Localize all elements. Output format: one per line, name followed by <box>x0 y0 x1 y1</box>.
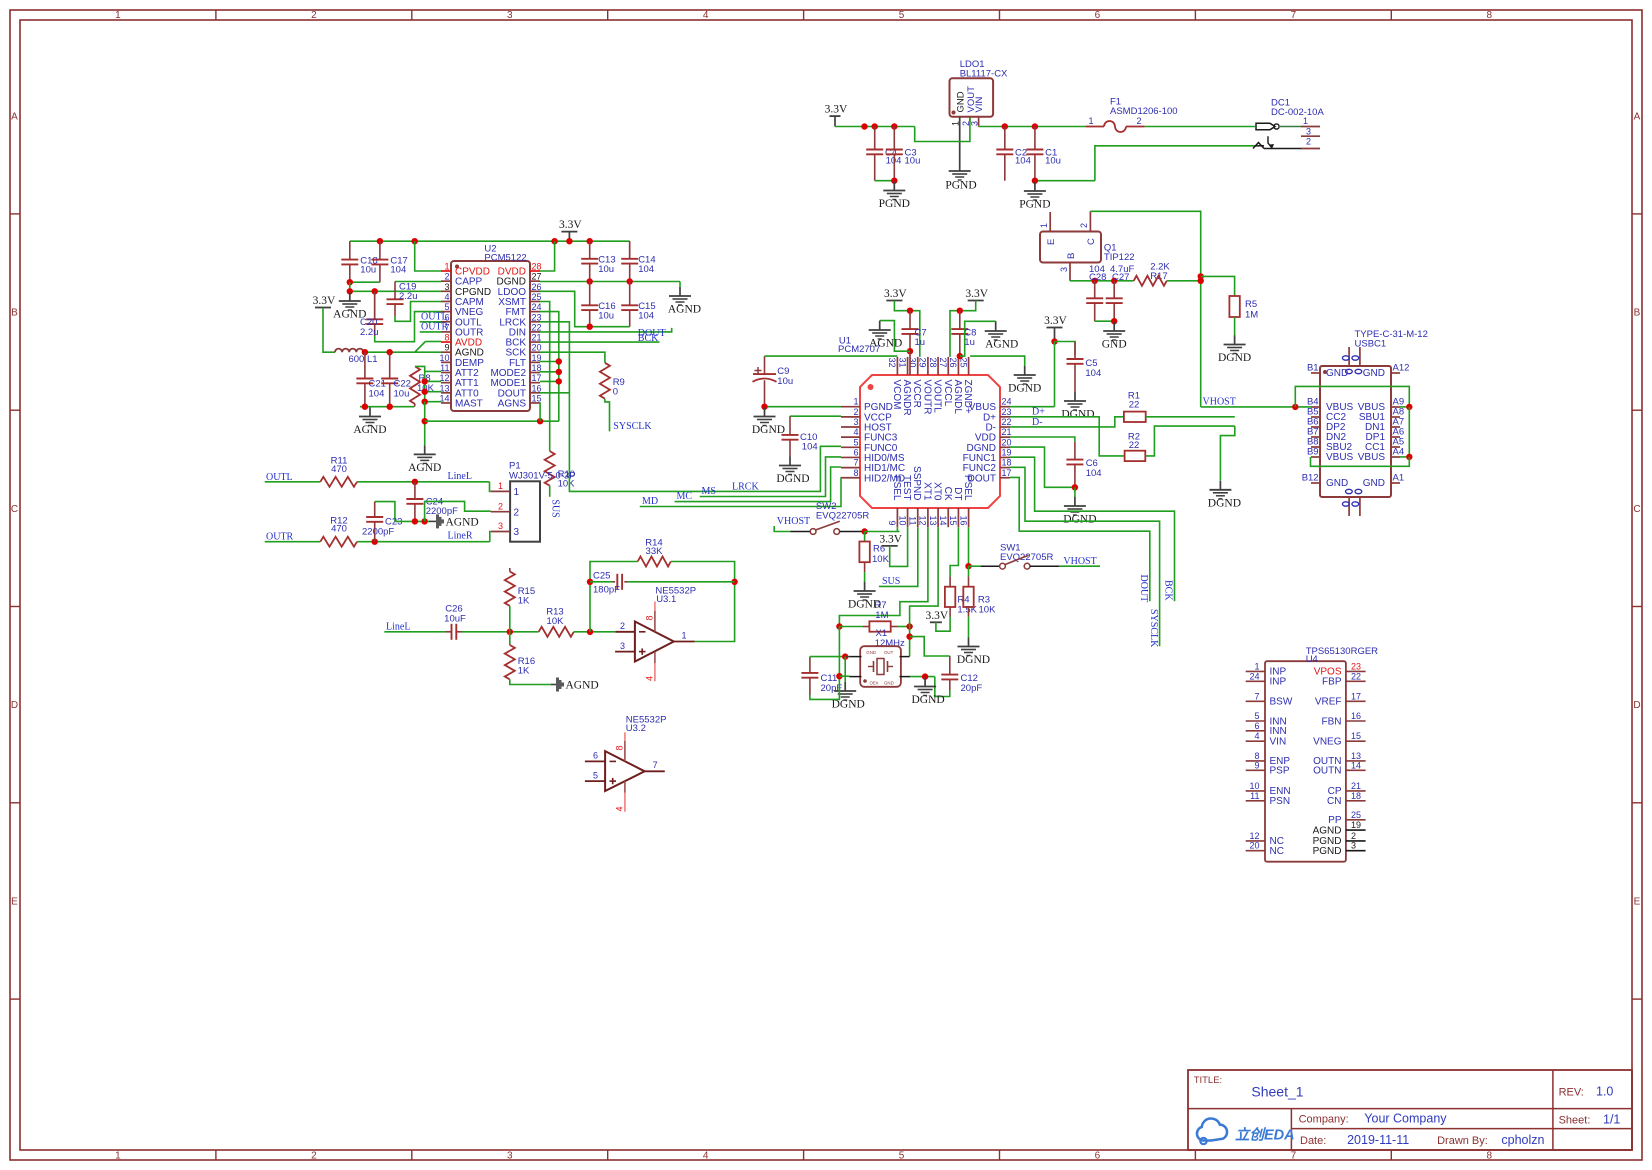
node C23 bottom <box>372 539 378 545</box>
title block <box>1188 1070 1632 1150</box>
svg-text:SYSCLK: SYSCLK <box>613 421 652 432</box>
U2 pin 9 AGND stub <box>441 351 451 353</box>
svg-text:Drawn By:: Drawn By: <box>1437 1135 1488 1147</box>
U2 pin 20 SCK stub <box>530 351 540 353</box>
svg-text:MC: MC <box>677 491 693 502</box>
node C25 right <box>731 579 737 585</box>
svg-text:10K: 10K <box>872 554 890 565</box>
svg-text:ASMD1206-100: ASMD1206-100 <box>1110 106 1178 117</box>
wire to R16 <box>509 632 511 645</box>
wire pin24 VBUS <box>1010 406 1055 408</box>
wire Q1 base row <box>1070 280 1134 282</box>
svg-text:20: 20 <box>1249 841 1259 851</box>
wire 3.3V to U2 pin1 CPVDD <box>415 241 441 271</box>
wire MAST bus down to AGND <box>424 402 426 446</box>
U1 pin 19 FUNC1 stub <box>1000 456 1010 458</box>
USBC1 pin A7 stub <box>1391 426 1400 428</box>
node 3.3V/C5 <box>1051 338 1057 344</box>
ground AGND arrow (R16) <box>556 678 564 692</box>
SW1 lever <box>1005 555 1029 564</box>
svg-text:VBUS: VBUS <box>1358 452 1386 463</box>
svg-text:1: 1 <box>444 262 449 272</box>
U2 pin 17 MODE1 stub <box>530 382 540 384</box>
ground DGND (C11/X1) <box>844 682 846 691</box>
svg-text:GND: GND <box>1363 368 1385 379</box>
svg-text:3.3V: 3.3V <box>884 288 907 300</box>
svg-text:FSEL: FSEL <box>891 475 902 500</box>
node MAST <box>422 399 428 405</box>
svg-text:DGND: DGND <box>832 699 865 711</box>
LDO1 pin2 VOUT stub <box>969 117 971 122</box>
wire R10 bottom <box>549 486 551 497</box>
svg-text:BL1117-CX: BL1117-CX <box>960 68 1008 79</box>
capacitor C12 body <box>949 656 951 675</box>
ground DGND (R5) <box>1234 336 1236 345</box>
U4 pin 24 INP stub <box>1246 680 1265 682</box>
svg-text:12: 12 <box>918 515 928 525</box>
capacitor C20 body <box>374 291 376 319</box>
svg-text:26: 26 <box>948 358 958 368</box>
svg-text:PSEL: PSEL <box>962 475 973 501</box>
node A9 <box>1406 404 1412 410</box>
U2 pin 14 MAST stub <box>441 402 451 404</box>
wire VHOST to USB B4 <box>1201 406 1311 408</box>
capacitor C1 <box>1034 127 1036 150</box>
node C22 bottom <box>387 404 393 410</box>
wire pin12 ATT1 <box>425 380 441 382</box>
node pin1 feed <box>412 238 418 244</box>
crystal X1 body <box>860 646 901 687</box>
power flag 3.3V (pin10 TEST) <box>882 545 898 547</box>
svg-text:DGND: DGND <box>776 473 809 485</box>
wire pin19 FLT <box>540 361 559 363</box>
resistor R13 zigzag <box>539 627 574 637</box>
U1 pin 26 AGNDL stub <box>957 357 959 375</box>
X1 pin GND top stub <box>849 656 861 658</box>
node pin2 branch <box>421 518 427 524</box>
svg-text:AGNDL: AGNDL <box>952 380 963 415</box>
USBC1 pin B7 stub <box>1311 436 1320 438</box>
U4 pin 13 OUTN stub <box>1346 760 1366 762</box>
wire pin26 LDOO to C16/C15 bottoms <box>540 291 630 326</box>
svg-text:16: 16 <box>958 515 968 525</box>
svg-text:LineL: LineL <box>448 471 472 482</box>
svg-text:1: 1 <box>1039 223 1049 228</box>
U1 pin 23 D+ stub <box>1000 416 1010 418</box>
svg-text:18: 18 <box>1002 458 1012 468</box>
U2 pin 8 AVDD stub <box>441 341 451 343</box>
wire down <box>1074 487 1076 497</box>
U1 pin 10 TEST stub <box>907 508 909 527</box>
svg-text:3.3V: 3.3V <box>1044 315 1067 327</box>
wire C18 bottom to CPGND row <box>349 282 351 291</box>
node C12 branch <box>906 633 912 639</box>
svg-text:PSP: PSP <box>1270 766 1290 777</box>
svg-text:GND: GND <box>866 650 876 655</box>
C20 top lead <box>374 291 376 319</box>
svg-text:LRCK: LRCK <box>732 481 759 492</box>
node C8 top <box>957 308 963 314</box>
svg-text:4: 4 <box>703 1150 709 1161</box>
power flag 3.3V (C5/VBUS) <box>1047 327 1063 329</box>
resistor R12 470 <box>320 537 357 547</box>
ground PGND (C1/C2) <box>1034 182 1036 191</box>
svg-text:2200pF: 2200pF <box>426 506 458 517</box>
U3.1 pin1 output stub <box>674 641 695 643</box>
svg-text:AGNDR: AGNDR <box>901 380 912 416</box>
svg-text:7: 7 <box>1254 691 1259 701</box>
U2 pin 2 CAPP stub <box>441 280 451 282</box>
svg-text:24: 24 <box>1002 397 1012 407</box>
svg-text:DGND: DGND <box>1218 352 1251 364</box>
wire MC net <box>675 467 841 502</box>
svg-text:VNEG: VNEG <box>1313 737 1342 748</box>
svg-text:B: B <box>1066 253 1077 259</box>
svg-text:OE#: OE# <box>870 680 879 685</box>
svg-text:6: 6 <box>853 447 858 457</box>
U1 pin 16 PSEL stub <box>968 508 970 527</box>
wire feedback up <box>590 562 638 632</box>
wire C19 bottom to pin4 CAPM <box>395 302 441 322</box>
svg-text:AGND: AGND <box>353 424 386 436</box>
resistor R8 zigzag <box>410 366 420 404</box>
P1 pin1 stub <box>491 490 510 492</box>
wire feedback to output <box>671 562 735 642</box>
svg-text:33K: 33K <box>646 546 664 557</box>
U1 pin31 stub ext <box>909 351 911 375</box>
svg-text:3: 3 <box>507 1150 513 1161</box>
wire AVDD rail (pin9 AGND row) <box>363 351 441 353</box>
U1 pin 32 VCOM stub <box>896 357 898 375</box>
svg-text:104: 104 <box>1085 368 1101 379</box>
svg-text:2: 2 <box>1136 116 1141 126</box>
wire pin17 MODE1 <box>540 380 559 382</box>
svg-text:10: 10 <box>897 515 907 525</box>
U2 pin 23 LRCK stub <box>530 321 540 323</box>
USBC1 pin B1 stub <box>1311 372 1320 374</box>
svg-text:3: 3 <box>620 641 625 651</box>
wire VIN rail <box>979 126 1086 128</box>
wire pin7 OUTR <box>420 331 441 333</box>
U4 pin 18 CN stub <box>1346 800 1366 802</box>
svg-text:3: 3 <box>444 282 449 292</box>
U3.2 pin8 power <box>624 732 626 741</box>
U4 pin 6 INN stub <box>1246 730 1265 732</box>
node 3.3V stem <box>566 238 572 244</box>
wire diagonal to pin8 AVDD <box>415 342 425 352</box>
wire C26 to R13 <box>462 631 539 633</box>
svg-text:1u: 1u <box>964 337 975 348</box>
svg-text:VBUS: VBUS <box>1326 452 1354 463</box>
wire U2 pin3 CPGND row <box>350 290 441 292</box>
node C17 top <box>377 238 383 244</box>
U1 pin 17 DOUT stub <box>1000 477 1010 479</box>
wire to pin13 XT0 <box>910 527 939 626</box>
svg-text:11: 11 <box>907 516 917 525</box>
svg-text:3: 3 <box>1351 841 1356 851</box>
svg-text:AGND: AGND <box>1313 825 1342 836</box>
U1 pin 1 PGND stub <box>841 406 860 408</box>
U4 pin 10 ENN stub <box>1246 790 1265 792</box>
svg-text:10u: 10u <box>394 389 410 400</box>
svg-text:104: 104 <box>390 265 406 276</box>
svg-text:Date:: Date: <box>1300 1135 1326 1147</box>
wire to R6 <box>864 532 866 542</box>
power flag 3.3V (U2 top rail) <box>561 231 577 233</box>
svg-text:10u: 10u <box>905 156 921 167</box>
wire AGND to P1 pin2 <box>425 501 491 521</box>
svg-text:1M: 1M <box>1245 310 1258 321</box>
capacitor C24 body <box>414 482 416 499</box>
U2 pin 26 LDOO stub <box>530 290 540 292</box>
wire pin20 DGND <box>1010 447 1075 487</box>
svg-text:1: 1 <box>514 487 520 498</box>
svg-text:6: 6 <box>593 751 598 761</box>
node C3 top junction <box>891 123 897 129</box>
svg-text:28: 28 <box>928 358 938 368</box>
U3.1 pin2 stub <box>615 631 635 633</box>
wire R16 to AGND <box>510 679 551 684</box>
wire pin16 DOUT stub wire <box>540 392 569 394</box>
svg-text:INP: INP <box>1270 677 1287 688</box>
U1 pin 28 VOUTL stub <box>937 357 939 375</box>
U2 pin 1 CPVDD stub <box>441 270 451 272</box>
svg-text:1.0: 1.0 <box>1596 1085 1613 1099</box>
svg-text:AGND: AGND <box>446 516 479 528</box>
U1 pin 14 CK stub <box>947 508 949 527</box>
USBC1 pin B8 stub <box>1311 446 1320 448</box>
wire to C12 top <box>910 637 950 656</box>
resistor R15 1K <box>509 568 511 572</box>
capacitor C9 10u polarized <box>764 356 766 374</box>
ground DGND (C5) <box>1074 392 1076 401</box>
svg-text:23: 23 <box>1351 661 1361 671</box>
svg-text:5: 5 <box>899 1150 905 1161</box>
svg-text:23: 23 <box>1002 407 1012 417</box>
node A4 <box>1406 454 1412 460</box>
U1 pin 3 HOST stub <box>841 426 860 428</box>
node feedback tap <box>587 629 593 635</box>
svg-text:10K: 10K <box>979 604 997 615</box>
svg-text:XT1: XT1 <box>921 482 932 501</box>
svg-text:VIN: VIN <box>1270 737 1287 748</box>
X1 pin OE# stub <box>849 676 861 678</box>
wire pin18 FUNC2 to SYSCLK <box>1010 467 1160 646</box>
U4 pin 21 CP stub <box>1346 790 1366 792</box>
svg-text:27: 27 <box>532 272 542 282</box>
svg-text:1: 1 <box>498 481 503 491</box>
resistor R10 zigzag <box>545 451 555 486</box>
svg-text:10uF: 10uF <box>444 614 466 625</box>
svg-text:PGND: PGND <box>945 180 976 192</box>
node C1 top <box>1032 123 1038 129</box>
wire C11 top row <box>810 656 845 658</box>
wire AGNS/FLT bus horizontal <box>425 420 559 422</box>
svg-text:600 L1: 600 L1 <box>348 354 377 365</box>
svg-text:17: 17 <box>1002 468 1012 478</box>
IC U4 TPS65130RGER <box>1265 661 1346 862</box>
X1 pin GND bottom stub <box>900 676 911 678</box>
svg-text:3: 3 <box>853 417 858 427</box>
svg-text:DGND: DGND <box>752 424 785 436</box>
wire pin17 DOUT net <box>1010 477 1150 601</box>
wire pin8 AVDD <box>425 341 441 343</box>
svg-text:104: 104 <box>369 389 385 400</box>
ground AGND (C13-C16 rail) <box>679 287 681 296</box>
Q1 pin1 E stub <box>1049 212 1051 232</box>
resistor R4 1.5K body <box>945 587 955 607</box>
node X1 gnd bottom <box>922 673 928 679</box>
wire pin16 PSEL down <box>968 527 970 566</box>
svg-text:BSW: BSW <box>1270 697 1293 708</box>
wire VBUS top loop <box>1295 386 1409 407</box>
U4 pin 8 ENP stub <box>1246 760 1265 762</box>
capacitor C11 body <box>809 657 811 673</box>
svg-text:2.2u: 2.2u <box>360 327 379 338</box>
wire XT0 node down <box>909 627 911 657</box>
svg-text:OUTR: OUTR <box>421 322 449 333</box>
ground AGND (C18/C17) <box>349 292 351 301</box>
svg-text:22: 22 <box>1129 399 1140 410</box>
Q1 pin3 B stub <box>1069 263 1071 281</box>
svg-text:9: 9 <box>1254 760 1259 770</box>
wire pin22 D- to R1 <box>1010 417 1124 427</box>
svg-text:18: 18 <box>1351 791 1361 801</box>
wire U1 pin2 VCCP <box>790 415 841 417</box>
svg-text:2.2u: 2.2u <box>399 291 418 302</box>
wire 3.3V to VCCL pin27 <box>950 301 976 357</box>
resistor R2 22 body <box>1125 451 1146 461</box>
wire OUTL to R11 <box>265 481 321 483</box>
svg-text:Sheet:: Sheet: <box>1559 1115 1591 1127</box>
svg-text:SUS: SUS <box>882 576 900 587</box>
node C8 bottom / pin26 <box>957 353 963 359</box>
wire pin20 SCK to R9 <box>540 352 605 363</box>
wire LineL to C26 <box>384 631 446 633</box>
svg-text:D: D <box>11 700 18 711</box>
wire pin12 XT1 staircase <box>839 527 928 626</box>
svg-text:3: 3 <box>507 10 513 21</box>
wire C12 bottom loop <box>935 677 950 697</box>
capacitor C17 <box>379 241 381 259</box>
wire to SW1 <box>969 565 981 567</box>
U4 pin 25 PP stub <box>1346 819 1366 821</box>
power flag 3.3V (top left) <box>830 115 841 117</box>
node PSEL/SW1/R3 <box>965 563 971 569</box>
svg-text:U4: U4 <box>1306 654 1318 665</box>
svg-text:E: E <box>1634 896 1641 907</box>
U3.2 pin6 stub <box>585 760 605 762</box>
node C24 top <box>412 479 418 485</box>
USBC1 pin B9 stub <box>1311 456 1320 458</box>
ground AGND (C8) <box>995 323 997 331</box>
svg-text:Your Company: Your Company <box>1364 1112 1447 1126</box>
U1 pin 6 HID0/MS stub <box>841 456 860 458</box>
svg-text:PGND: PGND <box>1313 846 1342 857</box>
U4 pin 4 VIN stub <box>1246 740 1265 742</box>
inductor L1 600 <box>335 349 363 353</box>
svg-text:5: 5 <box>899 10 905 21</box>
power flag 3.3V (C7) <box>886 300 902 302</box>
svg-text:4: 4 <box>444 292 449 302</box>
U1 pin 13 XT0 stub <box>937 508 939 527</box>
svg-text:8: 8 <box>1486 10 1492 21</box>
wire 3.3V to R4 bottom <box>936 617 950 631</box>
svg-text:25: 25 <box>1351 810 1361 820</box>
svg-text:cpholzn: cpholzn <box>1501 1133 1544 1147</box>
svg-text:DGND: DGND <box>957 654 990 666</box>
U1 pin 27 VCCL stub <box>947 357 949 375</box>
U1 pin 31 AGNDR stub <box>907 357 909 375</box>
wire pin11 ATT2 <box>425 370 441 372</box>
node C18 bottom <box>347 279 353 285</box>
svg-text:2: 2 <box>1079 223 1089 228</box>
svg-text:30: 30 <box>907 358 917 368</box>
svg-text:32: 32 <box>887 358 897 368</box>
svg-text:NC: NC <box>1270 846 1284 857</box>
svg-text:5: 5 <box>1254 711 1259 721</box>
svg-text:BCK: BCK <box>638 333 659 344</box>
svg-text:1: 1 <box>1303 116 1308 126</box>
ground AGND (C7) <box>879 322 881 330</box>
power flag 3.3V (C8) <box>968 300 984 302</box>
USBC1 pin A1 stub <box>1391 482 1400 484</box>
svg-text:E: E <box>11 896 18 907</box>
svg-text:EVQ22705R: EVQ22705R <box>816 510 869 521</box>
svg-text:9: 9 <box>444 343 449 353</box>
U2 pin 4 CAPM stub <box>441 300 451 302</box>
svg-text:1: 1 <box>115 1150 121 1161</box>
svg-text:CN: CN <box>1327 796 1341 807</box>
svg-text:10u: 10u <box>1045 156 1061 167</box>
svg-text:C: C <box>11 504 18 515</box>
USBC1 shell stubs <box>1348 347 1350 366</box>
svg-text:1: 1 <box>682 631 687 641</box>
IC U2 PCM5122 <box>451 261 530 411</box>
svg-text:SUS: SUS <box>550 499 561 517</box>
node C14 bottom <box>627 278 633 284</box>
svg-text:27: 27 <box>938 358 948 368</box>
svg-text:VCCL: VCCL <box>942 380 953 407</box>
capacitor C7 <box>909 311 911 329</box>
U1 pin 20 DGND stub <box>1000 446 1010 448</box>
wire U2 pin27 DGND row <box>540 281 680 283</box>
wire C28-C27 bottoms <box>1095 320 1115 322</box>
capacitor C16 <box>589 282 591 306</box>
svg-text:GND: GND <box>884 680 894 685</box>
svg-text:3: 3 <box>1059 267 1069 272</box>
ground DGND (C12/X1) <box>924 678 926 687</box>
svg-text:3.3V: 3.3V <box>559 219 582 231</box>
node R15/R16 junction <box>507 629 513 635</box>
capacitor C18 <box>349 241 351 259</box>
svg-text:REV:: REV: <box>1559 1087 1584 1099</box>
svg-text:AGND: AGND <box>408 462 441 474</box>
node VHOST/B4 <box>1292 404 1298 410</box>
node C6 bottom <box>1072 484 1078 490</box>
svg-text:13: 13 <box>928 515 938 525</box>
svg-text:20: 20 <box>532 343 542 353</box>
U3.1 pin8 power <box>654 602 656 612</box>
wire C4-C3 bottoms <box>875 180 895 182</box>
node C7 top <box>907 308 913 314</box>
svg-text:A4: A4 <box>1393 447 1405 458</box>
U2 pin 3 CPGND stub <box>441 290 451 292</box>
svg-text:1: 1 <box>853 397 858 407</box>
node SW2 common <box>861 528 867 534</box>
svg-text:XT0: XT0 <box>932 482 943 501</box>
svg-text:SSPND: SSPND <box>911 466 922 500</box>
